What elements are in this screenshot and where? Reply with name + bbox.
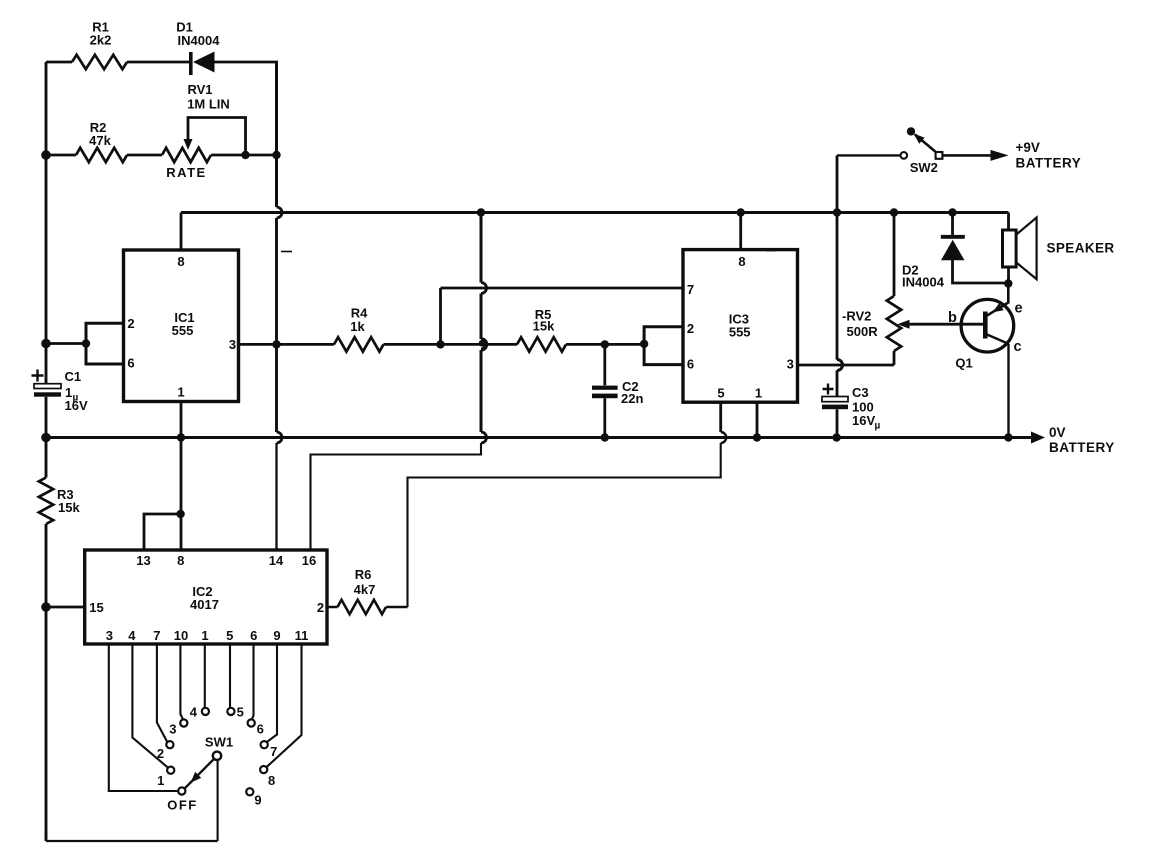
contact SW1 pos 7 xyxy=(261,741,268,748)
wire left rail to bracket xyxy=(46,342,86,345)
switch SW2 lever xyxy=(914,134,937,153)
label R4 1k xyxy=(350,306,368,335)
svg-text:1: 1 xyxy=(157,773,164,788)
svg-text:2k2: 2k2 xyxy=(90,33,112,48)
wire IC1 pin 1 riser to IC2 pin 8 xyxy=(180,402,183,551)
wire left rail below C1 xyxy=(45,397,48,478)
label C3 100 16Vu xyxy=(852,385,881,432)
svg-text:7: 7 xyxy=(153,628,160,643)
wire hop over pin7 line xyxy=(481,283,487,294)
wire R5 to IC3 bracket xyxy=(566,343,644,346)
wire hop over pin3 line xyxy=(479,339,486,349)
svg-text:0V: 0V xyxy=(1049,425,1066,440)
capacitor C2 xyxy=(592,386,618,399)
diode D2 xyxy=(941,235,965,260)
wire IC2 pin 9 to contact 7 xyxy=(267,644,277,742)
pin 8 label IC2 xyxy=(177,553,184,568)
svg-text:47k: 47k xyxy=(89,133,111,148)
label +9V BATTERY xyxy=(1016,140,1082,171)
junction R5 to bracket xyxy=(640,340,648,348)
junction right loop corner xyxy=(272,151,280,159)
potentiometer RV1 xyxy=(162,148,211,162)
label R3 15k xyxy=(57,487,80,515)
wire left rail to R2 xyxy=(46,154,76,157)
wire RV1 to right loop rail xyxy=(211,154,278,157)
label contact 3 xyxy=(169,722,176,737)
svg-text:6: 6 xyxy=(687,357,694,372)
wire D2 bottom lead xyxy=(953,260,1009,283)
wire speck xyxy=(281,251,292,253)
junction RV2 +9V rail xyxy=(890,208,898,216)
label D1 IN4004 xyxy=(176,20,220,49)
pin 8 label IC1 xyxy=(177,254,184,269)
wire node to IC3 pin7 bracket xyxy=(439,288,442,344)
resistor R3 xyxy=(39,478,53,525)
pin 7 label IC3 xyxy=(687,282,694,297)
contact SW1 pos 2 xyxy=(166,741,173,748)
label contact 5 xyxy=(237,705,244,720)
svg-text:9: 9 xyxy=(273,628,280,643)
svg-text:1k: 1k xyxy=(350,319,365,334)
svg-text:2: 2 xyxy=(157,746,164,761)
junction bracket xyxy=(82,339,90,347)
label IC1 555 xyxy=(172,310,195,338)
wire clock vertical middle xyxy=(275,218,278,432)
wire D2 top lead xyxy=(951,213,954,236)
svg-text:3: 3 xyxy=(229,337,236,352)
svg-text:OFF: OFF xyxy=(167,798,198,813)
pin 4 label IC2 xyxy=(128,628,136,643)
wire hop pin5 over 0V rail xyxy=(721,432,727,443)
wire 0V rail xyxy=(46,436,1032,439)
svg-text:1: 1 xyxy=(755,386,762,401)
capacitor C1 plus sign xyxy=(32,370,44,382)
wire IC1 pin 3 output xyxy=(239,343,335,346)
pin 9 label IC2 xyxy=(273,628,280,643)
diode D1 xyxy=(191,52,215,76)
label 0V BATTERY xyxy=(1049,425,1115,455)
svg-text:11: 11 xyxy=(295,628,309,643)
wire IC3 pin 8 riser xyxy=(739,213,742,250)
contact SW1 pos 8 xyxy=(260,766,267,773)
svg-text:SW2: SW2 xyxy=(910,160,938,175)
svg-text:7: 7 xyxy=(270,744,277,759)
junction SW2 riser +9V rail xyxy=(833,208,841,216)
svg-text:6: 6 xyxy=(250,628,257,643)
resistor R1 xyxy=(72,55,127,69)
op IC3 555 box xyxy=(683,250,798,403)
contact SW1 pos 4 xyxy=(202,708,209,715)
label Q1 xyxy=(955,356,972,371)
svg-text:7: 7 xyxy=(687,282,694,297)
label SW1 xyxy=(205,735,233,750)
svg-text:8: 8 xyxy=(738,254,745,269)
junction left rail pins 2-6 wire xyxy=(41,339,51,349)
svg-text:4: 4 xyxy=(128,628,136,643)
wire IC3 pin 1 riser xyxy=(756,402,759,437)
svg-text:b: b xyxy=(948,310,957,326)
contact SW1 pos 6 xyxy=(248,719,255,726)
label b xyxy=(948,310,957,326)
wire hop over 0V rail xyxy=(277,432,283,443)
wire IC2 pin 10 to contact 3 xyxy=(180,644,183,719)
label c xyxy=(1013,339,1021,355)
RV1 wiper link xyxy=(184,118,246,156)
svg-text:6: 6 xyxy=(257,722,264,737)
pin 1 label IC3 xyxy=(755,386,762,401)
node 0V battery arrow xyxy=(1031,432,1045,444)
label R1 2k2 xyxy=(90,20,112,48)
svg-text:10: 10 xyxy=(174,628,188,643)
junction C2 top xyxy=(601,340,609,348)
junction R4 bracket node xyxy=(436,340,444,348)
pin 3 label IC3 xyxy=(787,357,794,372)
wire IC3 pin 3 to RV2 xyxy=(798,364,895,367)
wire D1 to right loop rail xyxy=(215,61,279,64)
resistor R6 xyxy=(338,600,387,614)
label contact 4 xyxy=(190,705,198,720)
pin 1 label IC1 xyxy=(177,385,184,400)
wire R4 to R5 xyxy=(384,343,518,346)
label contact 9 xyxy=(254,793,261,808)
wire left rail lower xyxy=(45,524,48,841)
label D2 IN4004 xyxy=(902,263,945,290)
label contact 7 xyxy=(270,744,277,759)
svg-text:SW1: SW1 xyxy=(205,735,233,750)
contact SW1 pos 3 xyxy=(180,719,187,726)
junction IC3 pin8 +9V xyxy=(737,208,745,216)
label SW2 xyxy=(910,160,938,175)
svg-text:IN4004: IN4004 xyxy=(178,33,221,48)
speaker LS1 xyxy=(1003,218,1037,280)
svg-text:16V: 16V xyxy=(65,398,88,413)
wire hop over +9V rail xyxy=(277,207,283,218)
svg-text:C3: C3 xyxy=(852,385,869,400)
wire top loop from left rail to R1 xyxy=(46,61,72,64)
svg-text:4017: 4017 xyxy=(190,597,219,612)
pin 15 label IC2 xyxy=(89,600,103,615)
wire left rail upper xyxy=(45,62,48,384)
node +9V battery arrow xyxy=(991,150,1009,161)
svg-text:RATE: RATE xyxy=(166,165,206,180)
label e xyxy=(1014,301,1022,317)
pin 2 label IC1 xyxy=(127,316,134,331)
wire IC1 pins 2-6 bracket xyxy=(86,323,124,364)
svg-text:8: 8 xyxy=(177,254,184,269)
wire IC2 pin 6 to contact 6 xyxy=(252,644,254,719)
wire +9V to IC2 pin16 upper xyxy=(480,213,483,283)
contact SW1 pos 1 xyxy=(167,767,174,774)
wire IC3 pins 2-6 bracket xyxy=(644,327,683,365)
junction left rail pin 15 xyxy=(41,602,51,612)
wire SW2 riser xyxy=(836,155,839,212)
wire IC3 pin5 to R6 xyxy=(408,443,721,607)
wire +9V feed mid2 xyxy=(480,350,483,432)
svg-text:Q1: Q1 xyxy=(955,356,972,371)
junction pin13 loop xyxy=(176,510,184,518)
junction D2 +9V rail xyxy=(948,208,956,216)
contact SW1 pos 5 xyxy=(227,708,234,715)
wire IC3 pin 5 riser xyxy=(719,402,722,432)
transistor Q1 base bar xyxy=(983,312,988,339)
resistor R2 xyxy=(76,148,127,162)
svg-text:2: 2 xyxy=(317,600,324,615)
wire IC2 pin 1 to contact 4 xyxy=(204,644,206,708)
svg-text:4: 4 xyxy=(190,705,198,720)
svg-text:15: 15 xyxy=(89,600,103,615)
wire IC2 pin 15 xyxy=(46,606,85,609)
svg-text:6: 6 xyxy=(127,356,134,371)
wire clock vertical upper xyxy=(275,62,278,207)
svg-text:e: e xyxy=(1014,301,1022,317)
pin 10 label IC2 xyxy=(174,628,188,643)
wire hop over 0V rail xyxy=(481,432,487,443)
wire Q1 emitter xyxy=(986,284,1009,317)
pin 5 label IC3 xyxy=(717,386,724,401)
svg-text:1: 1 xyxy=(177,385,184,400)
svg-text:3: 3 xyxy=(106,628,113,643)
svg-text:1M LIN: 1M LIN xyxy=(187,97,230,112)
pin 16 label IC2 xyxy=(302,553,316,568)
wire C2 top lead xyxy=(603,344,606,385)
wire RV2 top lead xyxy=(893,213,896,297)
wire C2 bottom lead xyxy=(603,398,606,437)
wire SW1 pole to bottom rail xyxy=(217,760,219,841)
svg-text:500R: 500R xyxy=(847,324,879,339)
label contact 6 xyxy=(257,722,264,737)
junction IC1 pin 3 node xyxy=(272,340,280,348)
label contact 8 xyxy=(268,773,275,788)
pin 3 label IC2 xyxy=(106,628,113,643)
wire clock vertical to IC2 pin 14 xyxy=(275,443,277,550)
wire +9V feed to IC2 pin 16 xyxy=(311,443,482,550)
svg-text:µ: µ xyxy=(875,421,881,432)
resistor R5 xyxy=(517,337,566,351)
svg-text:555: 555 xyxy=(172,323,194,338)
svg-text:4k7: 4k7 xyxy=(354,582,376,597)
wire speck xyxy=(766,250,776,252)
wire +9V rail xyxy=(181,211,1009,214)
junction pin1 riser 0V rail xyxy=(177,433,185,441)
svg-text:555: 555 xyxy=(729,325,751,340)
label RATE xyxy=(166,165,206,180)
wire IC2 pin 4 to contact 1 xyxy=(132,644,168,768)
pin 6 label IC1 xyxy=(127,356,134,371)
wire IC3 pin 7 line xyxy=(441,287,684,290)
wire C3 column upper xyxy=(836,213,839,360)
svg-text:22n: 22n xyxy=(621,391,643,406)
op IC2 4017 box xyxy=(85,550,327,644)
wire IC2 pin 11 to contact 8 xyxy=(266,644,301,767)
junction IC3 pin1 0V xyxy=(753,433,761,441)
label C1 1u 16V xyxy=(65,369,88,413)
svg-text:SPEAKER: SPEAKER xyxy=(1047,241,1115,256)
wire IC2 pin 3 to OFF xyxy=(109,644,178,791)
junction C2 0V xyxy=(601,433,609,441)
wire IC2 pin 13 loop xyxy=(144,514,181,550)
contact SW2 left xyxy=(901,152,908,159)
junction left rail R2 xyxy=(41,150,51,160)
svg-text:c: c xyxy=(1013,339,1021,355)
pin 11 label IC2 xyxy=(295,628,309,643)
potentiometer RV2 xyxy=(887,296,901,351)
junction +9V rail feed xyxy=(477,208,485,216)
svg-text:2: 2 xyxy=(127,316,134,331)
label IC3 555 xyxy=(729,312,751,340)
capacitor C3 plus sign xyxy=(823,384,834,395)
op IC1 555 box xyxy=(124,250,239,402)
pin 2 label IC2 xyxy=(317,600,324,615)
svg-text:15k: 15k xyxy=(533,319,555,334)
label SPEAKER xyxy=(1047,241,1115,256)
svg-text:16V: 16V xyxy=(852,413,875,428)
wire IC2 pin 2 to R6 xyxy=(327,606,408,608)
wire speaker bottom lead xyxy=(1007,267,1010,284)
svg-text:C1: C1 xyxy=(65,369,82,384)
svg-text:+9V: +9V xyxy=(1016,140,1040,155)
contact SW1 OFF xyxy=(178,787,185,794)
label IC2 4017 xyxy=(190,584,219,612)
wire RV2 bottom lead xyxy=(893,351,896,365)
wire R1 to D1 xyxy=(127,61,190,64)
svg-text:5: 5 xyxy=(237,705,244,720)
capacitor C3 xyxy=(822,397,848,410)
wire SW2 left lead xyxy=(837,154,901,156)
wire bottom rail xyxy=(46,840,218,842)
svg-text:R6: R6 xyxy=(355,567,372,582)
capacitor C1 xyxy=(34,384,61,397)
label OFF xyxy=(167,798,198,813)
pin 6 label IC2 xyxy=(250,628,257,643)
pin 2 label IC3 xyxy=(687,321,694,336)
pin 14 label IC2 xyxy=(269,553,284,568)
wire speaker top lead xyxy=(1007,213,1010,231)
junction RV1 bracket xyxy=(241,151,249,159)
label R5 15k xyxy=(533,307,555,334)
wire IC1 pin 8 riser xyxy=(180,213,183,251)
pin 3 label IC1 xyxy=(229,337,236,352)
contact SW2 right xyxy=(936,152,943,159)
svg-text:RV1: RV1 xyxy=(187,82,212,97)
wire C3 bottom lead xyxy=(836,409,839,437)
svg-text:BATTERY: BATTERY xyxy=(1016,156,1082,171)
pin 6 label IC3 xyxy=(687,357,694,372)
wire hop over IC3 pin3 wire xyxy=(837,360,843,371)
wire IC2 pin 7 to contact 2 xyxy=(157,644,167,742)
svg-text:8: 8 xyxy=(177,553,184,568)
pin 8 label IC3 xyxy=(738,254,745,269)
svg-text:1: 1 xyxy=(201,628,208,643)
wire IC2 pin 5 to contact 5 xyxy=(229,644,231,708)
svg-text:5: 5 xyxy=(717,386,724,401)
svg-text:5: 5 xyxy=(226,628,233,643)
label RV1 1M LIN xyxy=(187,82,230,112)
svg-text:9: 9 xyxy=(254,793,261,808)
contact SW1 pos 9 xyxy=(246,788,253,795)
wire +9V feed mid xyxy=(480,294,483,340)
pin 1 label IC2 xyxy=(201,628,208,643)
node SW1 pole xyxy=(213,752,221,760)
wire Q1 collector xyxy=(986,334,1009,438)
label RV2 500R xyxy=(842,309,878,340)
svg-text:14: 14 xyxy=(269,553,284,568)
junction emitter node xyxy=(1004,279,1012,287)
wire SW2 to +9V arrow xyxy=(943,154,992,157)
transistor Q1 body xyxy=(961,299,1014,352)
junction left rail 0V rail xyxy=(41,433,51,443)
label R6 4k7 xyxy=(354,567,376,597)
node SW2 pivot xyxy=(907,127,915,135)
switch SW1 wiper arm xyxy=(185,759,214,789)
svg-text:IN4004: IN4004 xyxy=(902,275,945,290)
junction collector 0V xyxy=(1004,433,1012,441)
svg-text:2: 2 xyxy=(687,321,694,336)
svg-text:3: 3 xyxy=(169,722,176,737)
svg-text:3: 3 xyxy=(787,357,794,372)
pin 5 label IC2 xyxy=(226,628,233,643)
wire C3 top lead xyxy=(836,370,839,396)
resistor R4 xyxy=(334,337,384,351)
wire R2 to RV1 xyxy=(127,154,162,157)
svg-text:-RV2: -RV2 xyxy=(842,309,871,324)
label C2 22n xyxy=(621,379,643,406)
svg-text:8: 8 xyxy=(268,773,275,788)
label contact 1 xyxy=(157,773,164,788)
wire RV2 wiper to Q1 base xyxy=(898,320,984,329)
pin 13 label IC2 xyxy=(136,553,150,568)
svg-text:15k: 15k xyxy=(58,500,80,515)
junction C3 0V xyxy=(832,433,840,441)
svg-text:13: 13 xyxy=(136,553,150,568)
svg-text:BATTERY: BATTERY xyxy=(1049,440,1115,455)
label contact 2 xyxy=(157,746,164,761)
label R2 47k xyxy=(89,120,111,148)
pin 7 label IC2 xyxy=(153,628,160,643)
svg-text:16: 16 xyxy=(302,553,316,568)
